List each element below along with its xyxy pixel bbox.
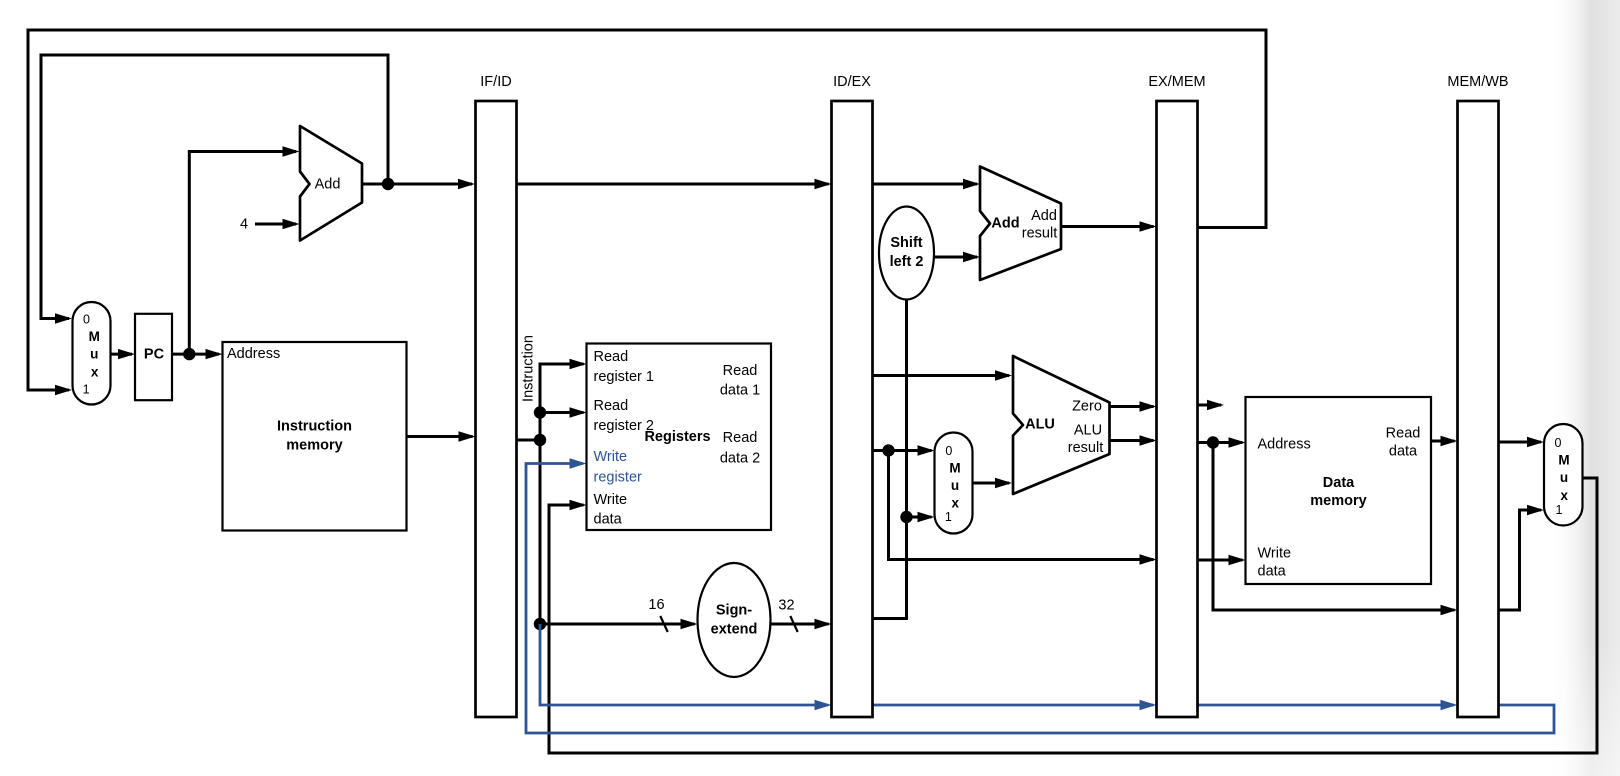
wire: read data 1 from ID/EX to ALU [873, 370, 1013, 380]
wire: read data from MEM/WB to WB mux input 0 [1499, 437, 1545, 447]
svg-text:data 1: data 1 [720, 383, 760, 399]
svg-text:ID/EX: ID/EX [833, 74, 871, 90]
wire: WB mux output loop back to Write data [549, 478, 1597, 753]
svg-text:Data: Data [1323, 475, 1355, 491]
junction dot at Add output [382, 178, 394, 190]
svg-text:data 2: data 2 [720, 451, 760, 467]
register PC [135, 314, 172, 400]
wire: sign-extended value branch to ALU mux input 1 [907, 512, 935, 522]
svg-text:Add: Add [991, 216, 1019, 232]
adder Add (branch target) [980, 167, 1061, 281]
svg-text:0: 0 [1555, 436, 1562, 450]
wire: Add output to IF/ID [362, 179, 475, 189]
svg-text:MEM/WB: MEM/WB [1447, 74, 1508, 90]
svg-text:left 2: left 2 [890, 254, 924, 270]
svg-text:x: x [91, 365, 99, 380]
svg-text:1: 1 [945, 510, 952, 524]
svg-text:IF/ID: IF/ID [480, 74, 511, 90]
svg-text:result: result [1068, 440, 1103, 456]
junction dot ALU result [1207, 436, 1219, 448]
wire: PC to instruction memory Address [172, 349, 223, 359]
blue wire: write register number loop back to Registers [526, 458, 1554, 733]
wire: shift left 2 output to branch Add [934, 252, 980, 262]
junction dot read data 2 [882, 444, 894, 456]
svg-text:Write: Write [594, 492, 628, 508]
pipeline register ID/EX [832, 74, 873, 717]
data memory [1246, 397, 1432, 584]
ALU [1013, 356, 1110, 494]
svg-text:Address: Address [1258, 437, 1311, 453]
wire: read data 2 branch down to EX/MEM [889, 451, 1157, 565]
svg-text:register 1: register 1 [594, 369, 654, 385]
wire: PC value up to Add top input [189, 146, 299, 354]
wire: Zero flag stub right of EX/MEM [1198, 400, 1225, 410]
blue wire: write register number from instruction to ID/EX [540, 624, 832, 710]
blue wire: write register number ID/EX to EX/MEM [873, 700, 1157, 710]
svg-text:1: 1 [1556, 503, 1563, 517]
wire: PC+4 loop from Add output to PC mux input 0 [41, 55, 388, 324]
svg-text:ALU: ALU [1074, 423, 1102, 439]
svg-text:PC: PC [144, 347, 165, 363]
svg-text:memory: memory [1310, 493, 1366, 509]
right edge shading [1549, 0, 1620, 776]
pipeline register MEM/WB [1447, 74, 1508, 717]
svg-text:Read: Read [723, 430, 758, 446]
svg-text:16: 16 [648, 597, 664, 613]
svg-text:M: M [89, 329, 100, 344]
wire: sign-extended value from ID/EX up to shift left 2 [873, 300, 907, 619]
wire: ALU result from EX/MEM to data memory Address [1198, 437, 1246, 447]
svg-text:EX/MEM: EX/MEM [1148, 74, 1205, 90]
svg-text:x: x [1561, 488, 1569, 503]
junction dot instruction main [534, 434, 546, 446]
wire: read data 2 from ID/EX to ALU mux [873, 445, 935, 455]
wire: sign-extend output to ID/EX [771, 619, 832, 629]
wire: PC+4 from IF/ID to ID/EX [517, 179, 832, 189]
svg-text:Address: Address [227, 346, 280, 362]
junction dot instruction/sign-extend [534, 618, 546, 630]
wire: ALU result bypass down to MEM/WB [1213, 443, 1458, 616]
svg-text:Write: Write [1258, 546, 1292, 562]
svg-text:u: u [1560, 470, 1568, 485]
svg-text:M: M [949, 460, 960, 475]
sign-extend unit [698, 563, 771, 677]
wire: ALU Zero to EX/MEM [1110, 401, 1157, 411]
wire: write data from EX/MEM to data memory [1198, 555, 1246, 565]
svg-text:result: result [1022, 226, 1057, 242]
svg-text:0: 0 [83, 312, 90, 326]
svg-text:Write: Write [594, 449, 628, 465]
svg-text:0: 0 [945, 444, 952, 458]
svg-text:Read: Read [594, 398, 629, 414]
wire: branch Add result to EX/MEM [1061, 221, 1157, 231]
registers file [587, 344, 772, 531]
svg-text:ALU: ALU [1025, 417, 1055, 433]
svg-text:1: 1 [83, 382, 90, 396]
svg-text:extend: extend [711, 622, 758, 638]
mux M2 (ALU operand mux) [935, 433, 973, 534]
wire: ALU result from MEM/WB to WB mux input 1 [1499, 505, 1545, 610]
svg-text:data: data [594, 512, 623, 528]
svg-text:u: u [951, 478, 959, 493]
svg-text:Registers: Registers [644, 429, 710, 445]
wire: ALU mux output to ALU [973, 478, 1013, 488]
svg-text:32: 32 [778, 598, 794, 614]
svg-text:Instruction: Instruction [521, 335, 537, 402]
svg-text:Read: Read [1386, 426, 1421, 442]
wire: PC+4 from ID/EX to branch Add [873, 179, 981, 189]
bus width tick 32 [790, 616, 797, 632]
svg-text:u: u [90, 347, 98, 362]
svg-text:data: data [1258, 564, 1287, 580]
junction dot at PC output [183, 348, 195, 360]
pipeline register IF/ID [476, 74, 517, 717]
svg-text:Read: Read [594, 349, 629, 365]
adder Add (PC+4) [300, 126, 362, 241]
mux M1 (PC source mux) [73, 302, 111, 405]
svg-text:Add: Add [1031, 208, 1057, 224]
wire: instruction bus out of IF/ID [517, 359, 587, 624]
wire: instruction immediate to sign-extend [540, 619, 698, 629]
svg-text:Zero: Zero [1072, 399, 1102, 415]
blue wire: write register number EX/MEM to MEM/WB [1198, 700, 1458, 710]
svg-text:Add: Add [315, 176, 341, 192]
wire: instruction to Read register 2 [540, 407, 587, 417]
wire: instruction memory output to IF/ID [407, 431, 476, 441]
wire: ALU result to EX/MEM [1110, 435, 1157, 445]
wire: data memory Read data to MEM/WB [1431, 436, 1458, 446]
svg-text:data: data [1389, 444, 1418, 460]
bus width tick 16 [660, 616, 667, 632]
svg-text:Instruction: Instruction [277, 419, 352, 435]
svg-text:Read: Read [723, 363, 758, 379]
pipeline register EX/MEM [1148, 74, 1205, 717]
mux M3 (write-back mux) [1544, 424, 1583, 526]
svg-text:x: x [952, 496, 960, 511]
svg-text:memory: memory [286, 438, 342, 454]
junction dot sign-extend/mux [900, 511, 912, 523]
wire: mux to PC [110, 349, 135, 359]
svg-text:Shift: Shift [890, 235, 922, 251]
instruction memory [223, 342, 407, 531]
svg-text:Sign-: Sign- [716, 603, 752, 619]
wire: branch-target loop from EX/MEM to PC mux input 1 [28, 30, 1266, 395]
svg-text:M: M [1558, 453, 1569, 468]
junction dot instruction/read-register-2 [534, 406, 546, 418]
shift left 2 unit [879, 207, 934, 300]
svg-text:4: 4 [240, 217, 248, 233]
svg-text:register: register [594, 470, 643, 486]
wire: constant 4 into Add [255, 219, 300, 229]
